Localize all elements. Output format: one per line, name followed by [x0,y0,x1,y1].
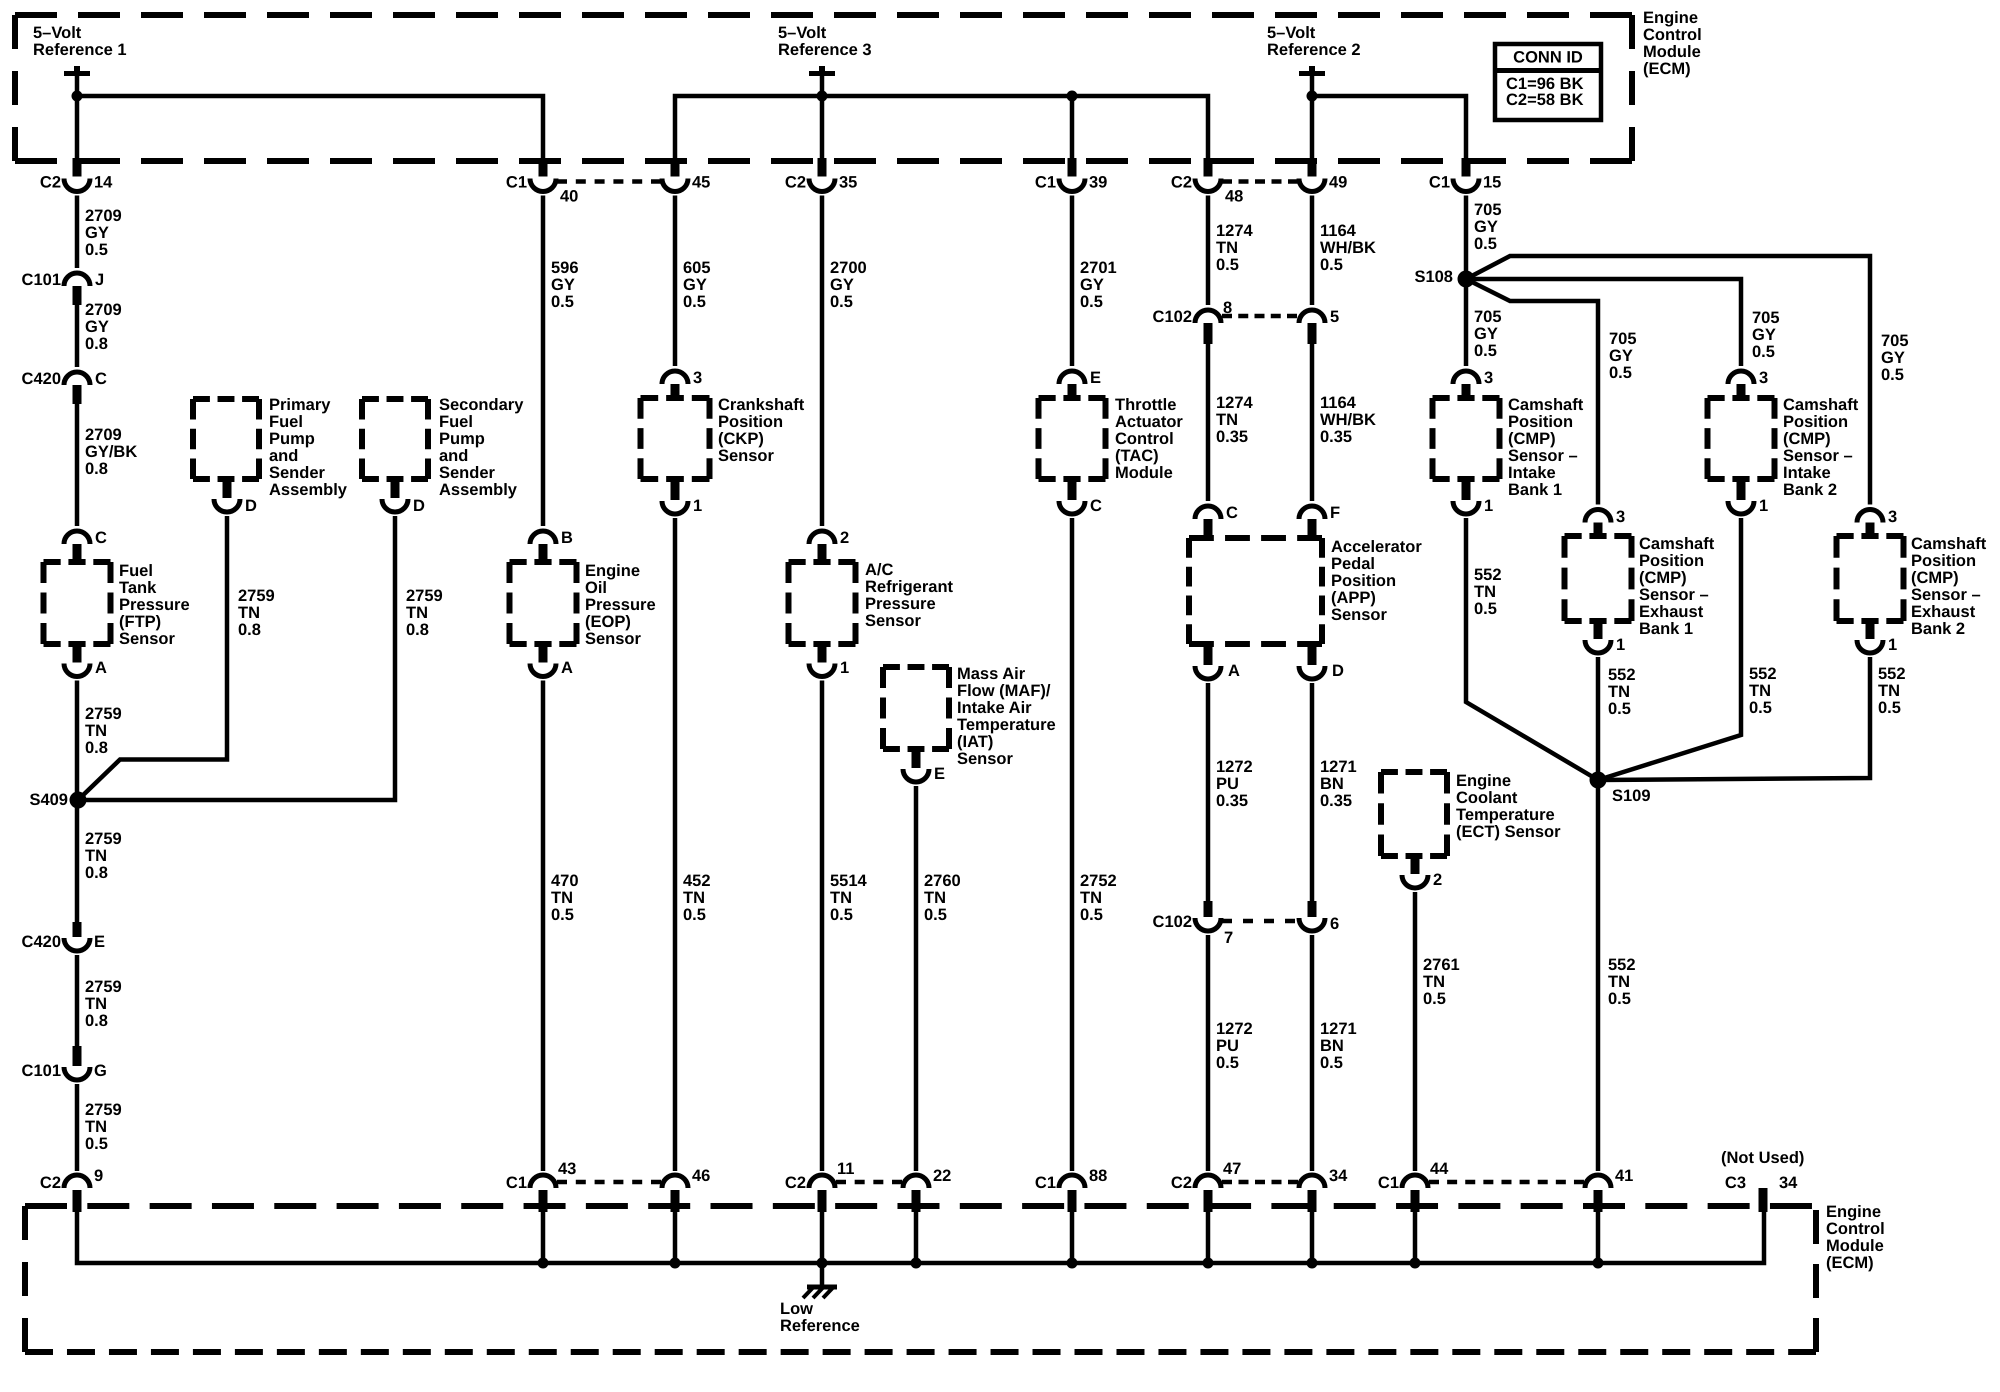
ECM pin 22 [903,1167,951,1212]
label 705 GY 0.5 exhaust bank1 [1609,330,1637,382]
svg-text:552: 552 [1608,956,1636,974]
svg-text:43: 43 [558,1160,576,1178]
svg-text:1: 1 [1759,497,1768,515]
svg-text:(CMP): (CMP) [1639,569,1687,587]
svg-text:0.5: 0.5 [1878,699,1901,717]
label 2760 TN 0.5 [924,872,961,924]
wire 1164 WH/BK 0.35 [1310,342,1315,501]
junction dot bus x=822 [817,1258,828,1269]
svg-text:552: 552 [1474,566,1502,584]
svg-text:S108: S108 [1414,268,1453,286]
label 1164 WH/BK 0.5 [1320,222,1376,274]
wire to low reference ground [820,1263,825,1286]
label 1271 BN 0.35 [1320,758,1357,810]
svg-text:6: 6 [1330,915,1339,933]
svg-text:G: G [94,1062,107,1080]
svg-text:Sensor: Sensor [718,447,775,465]
svg-text:0.5: 0.5 [1216,256,1239,274]
svg-text:GY: GY [1080,276,1104,294]
5-Volt Reference 1 label [33,24,127,59]
svg-text:(ECT) Sensor: (ECT) Sensor [1456,823,1561,841]
dashed connector link 43-46 [557,1180,661,1185]
svg-text:Camshaft: Camshaft [1508,396,1584,414]
ECM pin C1 15 [1429,158,1501,192]
svg-text:0.8: 0.8 [406,621,429,639]
connector C101 pin J [22,271,105,305]
label 1164 WH/BK 0.35 [1320,394,1376,446]
label 2759 TN 0.8 third [85,978,122,1030]
svg-text:Sensor: Sensor [865,612,922,630]
svg-text:Engine: Engine [1643,9,1698,27]
label 1272 PU 0.35 [1216,758,1253,810]
svg-text:Sensor: Sensor [1331,606,1388,624]
APP sensor label [1331,538,1422,624]
svg-text:TN: TN [85,995,107,1013]
wire 5514 TN 0.5 [820,681,825,1172]
ECM pin C2 11 [785,1160,855,1212]
svg-text:3: 3 [1888,508,1897,526]
svg-text:2: 2 [1433,871,1442,889]
svg-text:(ECM): (ECM) [1643,60,1691,78]
svg-text:GY: GY [830,276,854,294]
svg-text:C101: C101 [22,271,61,289]
svg-text:1274: 1274 [1216,394,1254,412]
svg-text:40: 40 [560,188,578,206]
ECM pin C1 44 [1378,1160,1449,1212]
svg-text:Intake: Intake [1783,464,1831,482]
CMP sensor intake bank2 label [1783,396,1859,499]
dashed connector link 40-45 [557,179,661,184]
wire Ref1 down to C2 pin 14 [75,96,80,161]
wire 552 TN 0.5 intake bank2 [1598,518,1741,780]
dashed connector link 7-6 [1222,919,1295,924]
svg-text:1164: 1164 [1320,394,1357,412]
svg-text:48: 48 [1225,188,1243,206]
svg-text:PU: PU [1216,1037,1239,1055]
svg-text:C2: C2 [785,174,806,192]
svg-text:0.8: 0.8 [85,1012,108,1030]
svg-text:2761: 2761 [1423,956,1460,974]
svg-text:(CKP): (CKP) [718,430,764,448]
label 2759 TN 0.8 primary [238,587,275,639]
ECM pin C3 34 (not used) [1725,1174,1798,1212]
svg-text:Engine: Engine [585,562,640,580]
svg-text:C: C [95,370,107,388]
5-Volt Reference 2 label [1267,24,1361,59]
svg-text:Assembly: Assembly [269,481,348,499]
wire 2759 TN 0.8 (FTP to S409) [75,681,80,801]
svg-text:0.5: 0.5 [1423,990,1446,1008]
label 2761 TN 0.5 [1423,956,1460,1008]
svg-text:GY: GY [1474,218,1498,236]
wire 596 GY 0.5 [541,196,546,527]
CMP sensor intake bank2 box [1708,398,1775,479]
svg-text:(ECM): (ECM) [1826,1254,1874,1272]
AC refrigerant pressure sensor pin 2 connector [809,529,849,565]
svg-text:0.5: 0.5 [1609,364,1632,382]
svg-text:0.5: 0.5 [924,906,947,924]
svg-text:TN: TN [1216,411,1238,429]
svg-text:0.5: 0.5 [1608,700,1631,718]
svg-text:2759: 2759 [85,705,122,723]
connector C420 pin C [22,370,107,404]
svg-text:Refrigerant: Refrigerant [865,578,954,596]
svg-text:Pump: Pump [269,430,315,448]
wire 2709 GY 0.5 [75,196,80,269]
svg-text:GY: GY [683,276,707,294]
AC refrigerant pressure sensor label [865,561,954,630]
dashed connector link 48-49 [1222,179,1298,184]
TAC module pin E connector [1059,369,1101,401]
svg-text:BN: BN [1320,1037,1344,1055]
svg-text:Camshaft: Camshaft [1911,535,1987,553]
wire 705 GY 0.5 (S108 down) [1464,279,1469,366]
svg-text:1272: 1272 [1216,758,1253,776]
svg-text:Pressure: Pressure [865,595,936,613]
CKP sensor label [718,396,805,465]
svg-text:Bank 2: Bank 2 [1911,620,1965,638]
svg-text:(CMP): (CMP) [1911,569,1959,587]
svg-text:Actuator: Actuator [1115,413,1183,431]
label 705 GY 0.5 exhaust bank2 [1881,332,1909,384]
CONN ID table [1495,44,1601,120]
svg-text:WH/BK: WH/BK [1320,239,1376,257]
svg-text:1: 1 [693,497,702,515]
ECM module (bottom) dashed outline [25,1206,1816,1352]
wire pin to bus x=1208 [1206,1210,1211,1263]
svg-text:2: 2 [840,529,849,547]
junction dot Ref1 [72,91,83,102]
svg-text:TN: TN [830,889,852,907]
svg-text:C1: C1 [1035,1174,1056,1192]
svg-text:Position: Position [1783,413,1848,431]
ECM pin C2 35 [785,158,857,192]
label 2759 TN 0.8 lower [85,830,122,882]
svg-text:47: 47 [1223,1160,1241,1178]
ECT sensor box [1381,772,1447,856]
svg-text:Bank 2: Bank 2 [1783,481,1837,499]
svg-text:Fuel: Fuel [439,413,473,431]
label 596 GY 0.5 [551,259,579,311]
svg-text:E: E [934,765,945,783]
CMP sensor exhaust bank1 box [1565,536,1632,621]
svg-text:2709: 2709 [85,301,122,319]
wire pin to bus x=1312 [1310,1210,1315,1263]
svg-text:Reference 3: Reference 3 [778,41,872,59]
wire 705 GY 0.5 branch to intake bank2 [1466,279,1741,366]
svg-text:Sensor: Sensor [119,630,176,648]
wire 1271 BN 0.35 [1310,683,1315,901]
svg-text:Sender: Sender [269,464,326,482]
svg-text:GY: GY [1881,349,1905,367]
svg-text:Secondary: Secondary [439,396,524,414]
APP sensor pin A connector [1195,641,1240,680]
CMP intake bank1 pin 1 connector [1453,476,1493,515]
svg-text:3: 3 [693,369,702,387]
ECM pin C2 48 [1171,158,1243,206]
wire 2752 TN 0.5 [1070,518,1075,1171]
svg-text:470: 470 [551,872,579,890]
CMP intake bank1 pin 3 connector [1453,369,1493,401]
ECM module (top) dashed outline [15,15,1632,161]
svg-text:0.5: 0.5 [1474,235,1497,253]
svg-text:1271: 1271 [1320,758,1357,776]
svg-text:Bank 1: Bank 1 [1639,620,1693,638]
label 470 TN 0.5 [551,872,579,924]
svg-text:0.8: 0.8 [85,739,108,757]
5-Volt Reference 2 source tick [1299,66,1325,96]
svg-text:Module: Module [1643,43,1701,61]
label 2759 TN 0.8 secondary [406,587,443,639]
svg-text:Mass Air: Mass Air [957,665,1026,683]
svg-text:Exhaust: Exhaust [1911,603,1976,621]
wire Ref2 down to pin 49 [1310,96,1315,161]
svg-text:Flow (MAF)/: Flow (MAF)/ [957,682,1051,700]
svg-text:TN: TN [406,604,428,622]
ECM pin 49 [1299,158,1347,192]
wire pin to bus x=1598 [1596,1210,1601,1263]
bus wire Ref2 to pin 15 [1312,96,1466,161]
label Low Reference [780,1300,860,1335]
svg-text:TN: TN [1423,973,1445,991]
wire pin to bus x=916 [914,1210,919,1263]
svg-text:0.5: 0.5 [683,293,706,311]
svg-text:C: C [1226,504,1238,522]
Secondary pump pin D connector [382,476,425,515]
label 705 GY 0.5 second [1474,308,1502,360]
AC refrigerant pressure sensor box [789,562,856,644]
svg-text:C420: C420 [22,933,61,951]
svg-text:(IAT): (IAT) [957,733,993,751]
svg-text:C2: C2 [40,174,61,192]
svg-text:GY: GY [1609,347,1633,365]
wire pin to bus x=675 [673,1210,678,1263]
svg-text:Bank 1: Bank 1 [1508,481,1562,499]
ECM pin C1 39 [1035,158,1107,192]
svg-text:Sensor: Sensor [957,750,1014,768]
wire 2759 TN 0.8 primary pump [78,516,227,800]
svg-text:Temperature: Temperature [957,716,1056,734]
wire pin to bus x=1415 [1413,1210,1418,1263]
svg-text:Camshaft: Camshaft [1783,396,1859,414]
label 1271 BN 0.5 [1320,1020,1357,1072]
svg-text:PU: PU [1216,775,1239,793]
CMP exhaust bank2 pin 1 connector [1857,618,1897,654]
CMP sensor exhaust bank2 box [1837,536,1904,621]
svg-text:TN: TN [1080,889,1102,907]
connector C101 pin G [22,1046,107,1080]
label 1274 TN 0.35 [1216,394,1254,446]
svg-text:C102: C102 [1153,308,1192,326]
svg-text:C420: C420 [22,370,61,388]
label 2759 TN 0.5 [85,1101,122,1153]
svg-text:7: 7 [1224,929,1233,947]
svg-text:1274: 1274 [1216,222,1254,240]
svg-text:A: A [561,659,573,677]
dashed connector link 44-41 [1429,1180,1584,1185]
junction dot bus x=1312 [1307,1258,1318,1269]
low reference ground symbol [803,1287,837,1299]
label 2700 GY 0.5 [830,259,867,311]
svg-text:Reference 1: Reference 1 [33,41,127,59]
svg-text:5: 5 [1330,308,1339,326]
CMP sensor exhaust bank2 label [1911,535,1987,638]
label 552 TN 0.5 low [1608,956,1636,1008]
wire 1274 TN 0.35 [1206,342,1211,501]
svg-text:(APP): (APP) [1331,589,1376,607]
junction dot bus x=1415 [1410,1258,1421,1269]
svg-text:14: 14 [94,174,113,192]
wire 1272 PU 0.5 [1206,935,1211,1171]
TAC module box [1039,398,1106,479]
svg-text:2760: 2760 [924,872,961,890]
junction dot Ref2 [1307,91,1318,102]
svg-text:TN: TN [1608,973,1630,991]
svg-text:3: 3 [1484,369,1493,387]
svg-text:2709: 2709 [85,426,122,444]
CKP sensor pin 3 connector [662,369,702,401]
ECM pin C2 9 [40,1167,103,1212]
label 2759 TN 0.8 upper [85,705,122,757]
svg-text:D: D [413,497,425,515]
svg-text:0.8: 0.8 [85,460,108,478]
EOP sensor pin A connector [530,641,573,677]
svg-text:705: 705 [1752,309,1780,327]
dashed connector link 11-22 [836,1180,902,1185]
low reference bus [77,1210,1764,1263]
svg-text:1: 1 [1616,636,1625,654]
ECM pin C1 43 [506,1160,576,1212]
svg-text:Engine: Engine [1826,1203,1881,1221]
svg-text:A: A [95,659,107,677]
wire 2759 TN 0.5 [75,1084,80,1171]
CMP intake bank2 pin 3 connector [1728,369,1768,401]
CMP sensor exhaust bank1 label [1639,535,1715,638]
svg-text:1: 1 [1484,497,1493,515]
svg-text:41: 41 [1615,1167,1633,1185]
svg-text:705: 705 [1474,201,1502,219]
svg-text:GY: GY [1474,325,1498,343]
connector C102 pin 6 [1299,901,1339,933]
svg-text:Position: Position [1331,572,1396,590]
svg-text:TN: TN [85,722,107,740]
svg-text:0.8: 0.8 [238,621,261,639]
svg-text:E: E [94,933,105,951]
svg-text:Sensor –: Sensor – [1783,447,1853,465]
svg-text:Temperature: Temperature [1456,806,1555,824]
wire pin to bus x=822 [820,1210,825,1263]
svg-text:TN: TN [1608,683,1630,701]
svg-text:0.5: 0.5 [85,1135,108,1153]
svg-text:and: and [439,447,468,465]
label 605 GY 0.5 [683,259,711,311]
EOP sensor pin B connector [530,529,573,565]
wire 2709 GY/BK 0.8 [75,402,80,526]
wire 1271 BN 0.5 [1310,935,1315,1171]
svg-text:Sensor –: Sensor – [1639,586,1709,604]
svg-text:GY/BK: GY/BK [85,443,137,461]
dashed connector link 8-5 [1222,314,1297,319]
svg-text:88: 88 [1089,1167,1107,1185]
svg-text:Accelerator: Accelerator [1331,538,1422,556]
svg-text:0.5: 0.5 [1881,366,1904,384]
svg-text:0.5: 0.5 [1474,600,1497,618]
svg-text:Camshaft: Camshaft [1639,535,1715,553]
svg-text:39: 39 [1089,174,1107,192]
svg-text:and: and [269,447,298,465]
5-Volt Reference 3 source tick [809,66,835,96]
junction dot bus x=1598 [1593,1258,1604,1269]
svg-text:2759: 2759 [85,1101,122,1119]
svg-text:Pressure: Pressure [585,596,656,614]
splice S109 [1590,772,1651,806]
ECM pin C2 14 [40,158,113,192]
CMP exhaust bank1 pin 3 connector [1585,508,1625,539]
svg-text:C3: C3 [1725,1174,1746,1192]
svg-text:CONN ID: CONN ID [1513,49,1583,67]
svg-text:0.5: 0.5 [1320,256,1343,274]
TAC module label [1115,396,1183,482]
svg-text:45: 45 [692,174,710,192]
wire 2701 GY 0.5 [1070,196,1075,367]
svg-text:0.8: 0.8 [85,335,108,353]
svg-text:0.5: 0.5 [683,906,706,924]
label 552 TN 0.5 exhaust bank1 [1608,666,1636,718]
dashed connector link 47-34 [1222,1180,1298,1185]
svg-text:C: C [95,529,107,547]
svg-text:Fuel: Fuel [119,562,153,580]
wire 2700 GY 0.5 [820,196,825,527]
MAF/IAT sensor pin E connector [903,746,945,783]
svg-text:2709: 2709 [85,207,122,225]
label 552 TN 0.5 intake bank1 [1474,566,1502,618]
ECM label (bottom right) [1826,1203,1885,1272]
svg-text:34: 34 [1779,1174,1798,1192]
svg-text:0.5: 0.5 [1080,906,1103,924]
svg-text:0.5: 0.5 [1216,1054,1239,1072]
svg-text:Assembly: Assembly [439,481,518,499]
svg-text:2701: 2701 [1080,259,1117,277]
svg-text:TN: TN [85,1118,107,1136]
svg-text:2759: 2759 [85,830,122,848]
svg-text:C1: C1 [506,1174,527,1192]
svg-text:0.35: 0.35 [1216,792,1248,810]
svg-text:TN: TN [1216,239,1238,257]
svg-text:Pump: Pump [439,430,485,448]
svg-text:Exhaust: Exhaust [1639,603,1704,621]
svg-text:35: 35 [839,174,857,192]
wire down to C1 pin 39 [1070,96,1075,161]
APP sensor pin D connector [1299,641,1344,680]
Primary fuel pump box [193,399,259,479]
svg-text:C2: C2 [40,1174,61,1192]
EOP sensor label [585,562,656,648]
FTP sensor pin C connector [64,529,107,565]
svg-text:C2: C2 [1171,1174,1192,1192]
ECM pin C1 88 [1035,1167,1107,1212]
svg-text:Position: Position [1911,552,1976,570]
svg-text:(CMP): (CMP) [1783,430,1831,448]
svg-text:11: 11 [837,1160,854,1178]
svg-text:0.5: 0.5 [1752,343,1775,361]
svg-text:Sensor: Sensor [585,630,642,648]
wire 1164 WH/BK 0.5 [1310,196,1315,306]
wire 552 TN 0.5 (S109 to pin 41) [1596,780,1601,1171]
svg-text:5–Volt: 5–Volt [778,24,827,42]
5-Volt Reference 1 source tick [64,66,90,96]
CMP intake bank2 pin 1 connector [1728,476,1768,515]
svg-text:0.5: 0.5 [1608,990,1631,1008]
